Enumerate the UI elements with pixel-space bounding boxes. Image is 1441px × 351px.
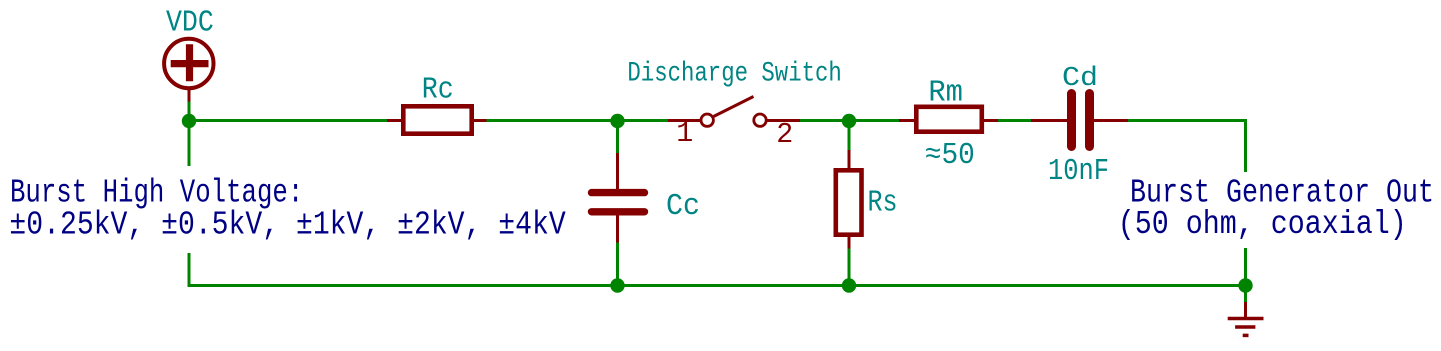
switch SW (discharge switch) (668, 97, 800, 127)
wire: left vertical lower segment (188, 253, 191, 286)
wire: Cc top green segment (616, 121, 619, 154)
wire: bottom bus (188, 284, 1246, 287)
resistor Rm (899, 107, 998, 132)
svg-text:Rc: Rc (422, 74, 454, 108)
voltage source VDC (circle with plus) (164, 39, 213, 102)
svg-text:10nF: 10nF (1048, 155, 1109, 189)
wire: ground stub green (1244, 286, 1247, 303)
svg-text:Cd: Cd (1062, 63, 1098, 93)
wire: Rm to Cd (997, 119, 1032, 122)
junction: VDC node (182, 114, 196, 128)
svg-text:±0.25kV, ±0.5kV, ±1kV, ±2kV, ±: ±0.25kV, ±0.5kV, ±1kV, ±2kV, ±4kV (9, 206, 565, 243)
svg-text:Cc: Cc (666, 190, 700, 224)
resistor Rc (387, 106, 487, 133)
wire: top-left horizontal, junction to Rc (189, 119, 388, 122)
junction: Rc/Cc/switch node (610, 114, 624, 128)
wire: Cc bottom green segment (616, 242, 619, 286)
svg-text:≈50: ≈50 (925, 139, 975, 173)
capacitor Cc (592, 153, 645, 243)
capacitor Cd (1031, 94, 1128, 147)
wire: right vertical lower segment (1244, 248, 1247, 286)
junction: output bottom node (1238, 278, 1252, 292)
ground (1228, 302, 1264, 335)
svg-text:Rm: Rm (928, 77, 963, 111)
svg-text:Discharge Switch: Discharge Switch (627, 59, 841, 90)
resistor Rs (836, 150, 862, 249)
svg-text:VDC: VDC (166, 7, 214, 41)
wire: Rs top green segment (848, 121, 851, 150)
svg-text:1: 1 (676, 117, 693, 150)
svg-text:Rs: Rs (868, 186, 898, 220)
wire: Cd to right corner (1127, 119, 1246, 122)
wire: VDC pin to junction (vertical) (188, 100, 191, 121)
wire: right vertical upper segment (1244, 119, 1247, 172)
wire: Rc to switch pin 1 (486, 119, 669, 122)
wire: left vertical upper segment (188, 119, 191, 166)
wire: Rs bottom green segment (848, 248, 851, 286)
wire: switch pin 2 to Rm (799, 119, 900, 122)
junction: Cc bottom node (610, 278, 624, 292)
svg-text:(50 ohm, coaxial): (50 ohm, coaxial) (1118, 206, 1407, 243)
junction: switch/Rs/Rm node (842, 114, 856, 128)
junction: Rs bottom node (842, 278, 856, 292)
svg-text:2: 2 (776, 118, 793, 151)
